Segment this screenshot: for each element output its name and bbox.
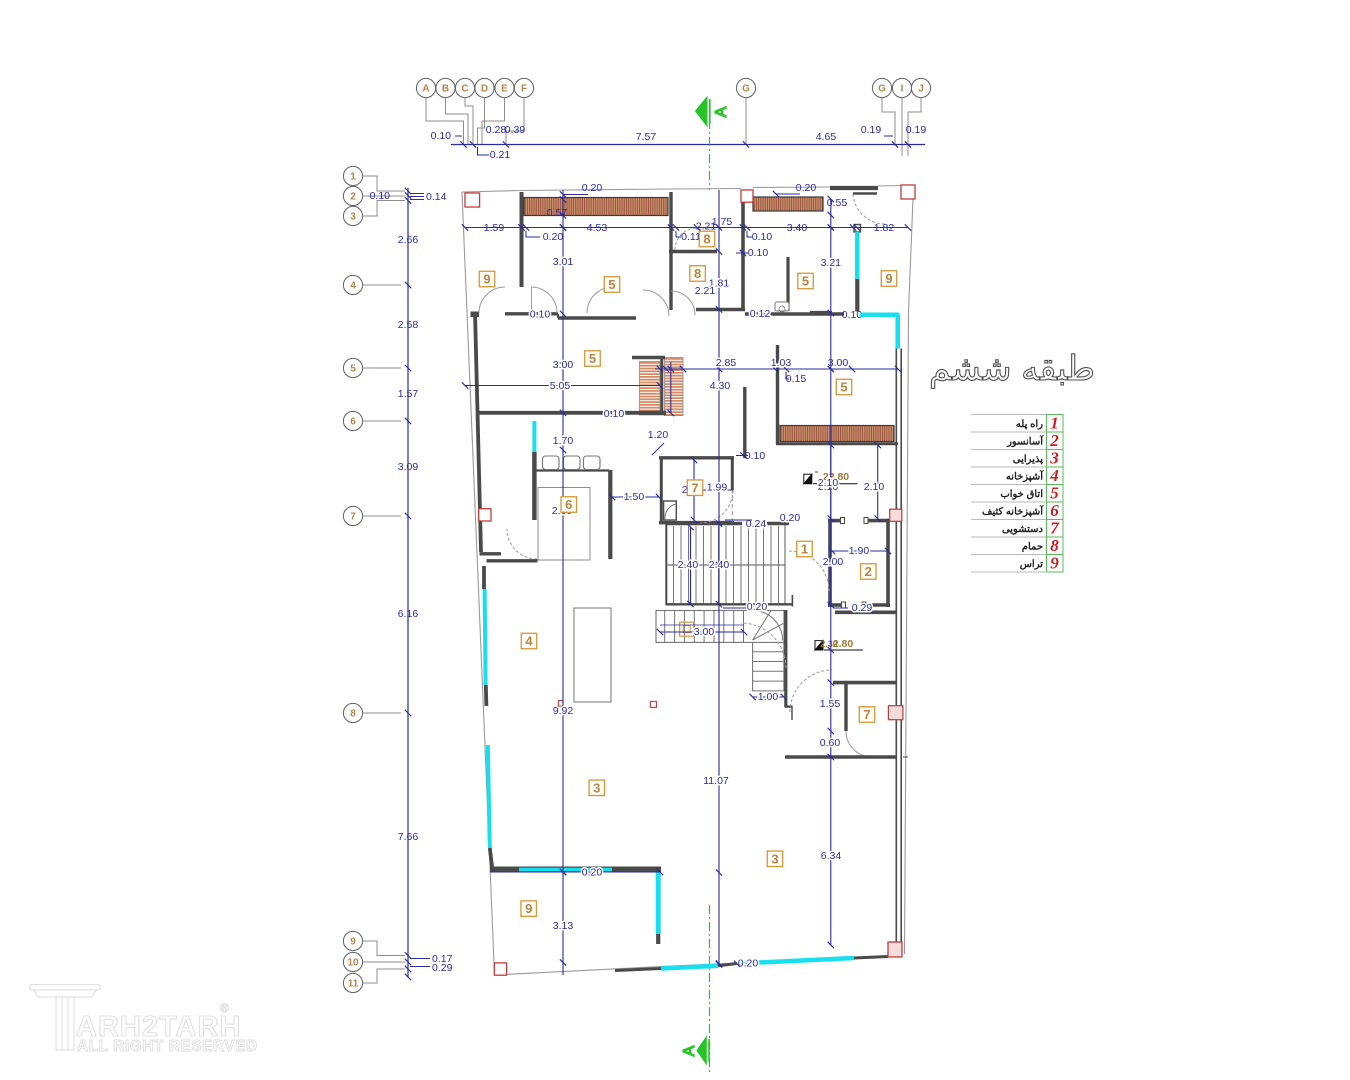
- svg-text:حمام: حمام: [1022, 542, 1043, 553]
- lobby door arc dashed lower: [790, 670, 832, 712]
- small red box near stair: [650, 701, 656, 707]
- grid bubble 2: [343, 186, 362, 205]
- mid hatch bottom wall extension: [639, 411, 666, 416]
- room label 8 lower: [690, 266, 706, 282]
- svg-text:2.21: 2.21: [695, 285, 716, 297]
- svg-text:7: 7: [691, 480, 698, 495]
- svg-text:6: 6: [350, 417, 356, 428]
- svg-text:0.28: 0.28: [486, 124, 507, 136]
- kitchen counter cabinet outline: [538, 488, 590, 561]
- grid bubble 1: [343, 166, 362, 185]
- dim 5.05 line: [465, 385, 660, 387]
- terrace 9 east window cyan: [656, 872, 661, 934]
- kitchen window cyan: [532, 421, 536, 452]
- svg-text:6: 6: [1050, 501, 1059, 520]
- svg-text:ALL RIGHT RESERVED: ALL RIGHT RESERVED: [77, 1038, 258, 1055]
- svg-text:D: D: [481, 84, 488, 95]
- svg-text:0.11: 0.11: [681, 231, 701, 243]
- svg-text:4: 4: [525, 634, 533, 649]
- svg-text:A: A: [713, 106, 730, 117]
- svg-text:7.57: 7.57: [636, 131, 657, 143]
- svg-text:0.29: 0.29: [432, 962, 453, 974]
- terrace 9 north wall: [490, 867, 661, 873]
- room label 6 kitchen: [561, 497, 577, 513]
- top-left corner red square: [465, 193, 480, 207]
- grid bubble 10: [343, 952, 362, 971]
- storage north wall: [835, 610, 896, 614]
- kitchen east wall: [608, 470, 612, 559]
- room 5a south wall jog: [557, 314, 559, 318]
- terrace cyan window corner horizontal: [860, 312, 899, 317]
- svg-text:E: E: [501, 84, 508, 95]
- svg-text:3.21: 3.21: [821, 257, 842, 269]
- svg-text:7.66: 7.66: [398, 831, 419, 843]
- svg-text:2.10: 2.10: [818, 477, 839, 489]
- east wall outer line: [895, 349, 897, 955]
- svg-text:3.09: 3.09: [398, 461, 419, 473]
- svg-text:1.20: 1.20: [648, 429, 669, 441]
- svg-text:8: 8: [694, 266, 701, 281]
- orange box stair label: [680, 622, 694, 636]
- svg-text:A: A: [681, 1045, 698, 1056]
- room label 9 right terrace: [881, 271, 897, 287]
- elevator east wall: [886, 519, 890, 607]
- svg-text:8: 8: [703, 232, 710, 247]
- svg-text:8: 8: [350, 709, 356, 720]
- svg-text:6: 6: [565, 497, 572, 512]
- left dimension line: [407, 188, 409, 977]
- legend row 9: [971, 554, 1047, 556]
- room 5b north wall segment: [558, 316, 636, 319]
- section marker bottom triangle: [697, 1037, 706, 1064]
- wall left of top balcony: [520, 192, 524, 287]
- stair treads upper flights: [674, 526, 779, 604]
- stairwell south edge: [666, 603, 793, 605]
- top-right corner red square: [901, 185, 915, 199]
- lobby door arc dashed upper: [789, 551, 829, 591]
- pink column right of elevator north: [890, 509, 902, 521]
- grid bubble J: [911, 78, 930, 97]
- svg-text:0.29: 0.29: [852, 602, 873, 614]
- room label 9 upper-left terrace: [479, 271, 495, 287]
- dim 1.90 elevator: [832, 550, 888, 552]
- svg-text:0.60: 0.60: [820, 737, 841, 749]
- wall right of top balcony / room 8 west wall: [669, 192, 672, 310]
- room 7b north wall: [833, 681, 896, 685]
- grid bubble D: [475, 78, 494, 97]
- svg-text:5: 5: [608, 277, 615, 292]
- grid bubble G: [736, 78, 755, 97]
- legend table: [971, 414, 1063, 573]
- kitchen door arc dashed: [507, 529, 537, 559]
- bedroom5/wc divider wall: [786, 257, 789, 311]
- bubble leaders G I J right: [882, 98, 895, 144]
- terrace cyan window corner vertical: [895, 315, 900, 349]
- svg-text:1.90: 1.90: [849, 545, 870, 557]
- top-right door leaf: [853, 192, 877, 195]
- kitchen stove burners: [543, 456, 560, 470]
- dim 1.00 winder: [753, 696, 784, 698]
- top-right window cyan: [855, 232, 860, 279]
- bottom-left corner red square: [494, 963, 506, 975]
- svg-text:راه پله: راه پله: [1016, 419, 1043, 430]
- room 7a shower corner: [664, 501, 677, 520]
- svg-text:دستشویی: دستشویی: [1002, 524, 1044, 535]
- svg-text:4: 4: [350, 281, 356, 292]
- svg-text:4: 4: [1049, 466, 1059, 485]
- legend row 1: [971, 414, 1047, 416]
- room 5a south wall segment: [505, 312, 558, 315]
- bottom window cyan right: [737, 958, 854, 964]
- svg-text:0.20: 0.20: [738, 958, 759, 970]
- dim 2.10 room 7a: [693, 460, 695, 520]
- svg-text:1.70: 1.70: [553, 435, 574, 447]
- grid bubble 9 left: [343, 931, 362, 950]
- svg-text:5: 5: [589, 351, 596, 366]
- dim 1.99 room 7a: [694, 489, 733, 491]
- room label 3 living east: [767, 851, 783, 867]
- svg-text:1.99: 1.99: [707, 482, 728, 494]
- svg-text:4.65: 4.65: [816, 131, 837, 143]
- level marker upper 22.80: [804, 474, 812, 483]
- grid G wall top-middle: [741, 190, 745, 311]
- west window cyan lower: [488, 745, 490, 848]
- svg-text:C: C: [461, 84, 468, 95]
- room label 5 upper right bedroom: [798, 273, 814, 289]
- grid bubble C: [455, 78, 474, 97]
- legend row 3: [971, 449, 1047, 451]
- left bubble leaders: [363, 176, 405, 191]
- room label 5 east bedroom: [836, 379, 852, 395]
- stairwell east edge: [784, 525, 786, 605]
- top balcony hatch: [524, 198, 668, 216]
- svg-text:0.10: 0.10: [752, 231, 773, 243]
- watermark tarh2tarh logo: [30, 985, 100, 1051]
- svg-text:5: 5: [1050, 484, 1059, 503]
- svg-text:0.10: 0.10: [604, 408, 625, 420]
- svg-text:اتاق خواب: اتاق خواب: [1000, 489, 1043, 500]
- legend row 8: [971, 536, 1047, 538]
- svg-text:3.40: 3.40: [787, 222, 808, 234]
- svg-text:3.00: 3.00: [553, 359, 574, 371]
- room 7b west wall: [844, 683, 847, 731]
- svg-text:1: 1: [1050, 414, 1059, 433]
- svg-text:1.57: 1.57: [398, 388, 419, 400]
- terrace 9 east wall cap: [656, 934, 660, 944]
- grid bubble 3: [343, 206, 362, 225]
- door arcs rooms 9/5a: [479, 287, 505, 313]
- elevator south wall: [828, 603, 842, 607]
- svg-text:1.75: 1.75: [712, 216, 733, 228]
- room label 8 upper: [699, 231, 715, 247]
- svg-text:11: 11: [348, 979, 359, 990]
- svg-text:I: I: [901, 84, 904, 95]
- wc room south wall: [745, 312, 844, 316]
- room label 2 elevator: [861, 564, 877, 580]
- svg-text:J: J: [918, 84, 924, 95]
- room label 4 kitchen room: [521, 633, 537, 649]
- room 5a south wall west block: [471, 312, 480, 318]
- room 8 door arc: [675, 228, 697, 250]
- svg-text:2.85: 2.85: [716, 357, 737, 369]
- svg-text:0.19: 0.19: [906, 124, 927, 136]
- svg-text:4.30: 4.30: [710, 380, 731, 392]
- svg-text:9: 9: [350, 937, 356, 948]
- room label 3 living: [589, 780, 605, 796]
- stairwell north wall: [666, 522, 743, 525]
- svg-text:0.14: 0.14: [426, 191, 447, 203]
- svg-text:0.10: 0.10: [748, 247, 769, 259]
- grid bubble A: [416, 78, 435, 97]
- svg-text:4.53: 4.53: [587, 222, 608, 234]
- legend row 4: [971, 466, 1047, 468]
- svg-text:طبقه ششم: طبقه ششم: [929, 350, 1095, 389]
- grid bubble 8: [343, 703, 362, 722]
- room label 9 bottom terrace: [521, 901, 537, 917]
- terrace 9 south wall piece: [810, 311, 832, 315]
- top-right thick wall: [830, 186, 878, 190]
- svg-text:0.20: 0.20: [747, 601, 768, 613]
- legend row 5: [971, 484, 1047, 486]
- svg-text:3: 3: [593, 780, 600, 795]
- svg-text:آسانسور: آسانسور: [1006, 435, 1044, 448]
- svg-text:0.39: 0.39: [505, 124, 526, 136]
- room 7a south wall: [659, 521, 734, 525]
- svg-text:3.01: 3.01: [553, 256, 574, 268]
- svg-text:0.21: 0.21: [490, 149, 511, 161]
- svg-text:2.40: 2.40: [678, 559, 699, 571]
- legend row 6: [971, 501, 1047, 503]
- svg-text:9: 9: [1050, 554, 1059, 573]
- svg-text:2: 2: [1049, 431, 1059, 450]
- stair winder fan: [753, 611, 784, 640]
- grid bubble 7: [343, 506, 362, 525]
- door arcs room 5a east doors: [587, 287, 613, 313]
- svg-text:6.34: 6.34: [821, 850, 842, 862]
- room 7a west wall: [660, 457, 663, 523]
- svg-text:0.20: 0.20: [796, 182, 817, 194]
- property boundary bottom edge: [495, 957, 891, 976]
- svg-text:1.03: 1.03: [771, 357, 792, 369]
- svg-text:8: 8: [1050, 536, 1059, 555]
- east wall inner line: [900, 349, 902, 955]
- stair lower flight treads: [665, 611, 744, 642]
- grid bubble B: [436, 78, 455, 97]
- dim 1.20 vertical: [670, 362, 672, 413]
- hall west wall lower piece: [487, 559, 538, 562]
- bottom wall dark pieces: [615, 969, 661, 971]
- mid hatch left strip: [640, 362, 661, 413]
- svg-text:0.20: 0.20: [582, 867, 603, 879]
- east vertical dim line x=877.7: [877, 445, 879, 520]
- svg-text:2: 2: [350, 192, 356, 203]
- svg-text:10: 10: [347, 958, 359, 969]
- svg-text:1: 1: [801, 542, 808, 557]
- room 7b south wall: [785, 755, 896, 759]
- dim line y=227 horizontal: [465, 227, 908, 229]
- property boundary right edge: [905, 199, 914, 954]
- svg-text:9: 9: [483, 272, 490, 287]
- west wall joint piece: [484, 685, 488, 706]
- svg-text:5.05: 5.05: [550, 380, 571, 392]
- east balcony hatch H3: [780, 426, 894, 442]
- elevator west wall: [828, 519, 832, 607]
- bottom window cyan left: [661, 966, 718, 969]
- stair east wall: [784, 610, 787, 707]
- room label 5 upper bedroom: [604, 277, 620, 293]
- west wall corner to terrace: [490, 848, 493, 869]
- svg-text:5: 5: [802, 274, 809, 289]
- svg-text:2: 2: [865, 564, 872, 579]
- pink column room 7b: [888, 706, 903, 720]
- dim 0.20 terrace: [490, 871, 660, 873]
- svg-text:9: 9: [525, 901, 532, 916]
- legend row 2: [971, 431, 1047, 433]
- svg-text:G: G: [742, 84, 750, 95]
- bottom-right corner red square: [888, 942, 902, 957]
- dim 1.50 hall: [612, 496, 659, 498]
- legend row 7: [971, 519, 1047, 521]
- top-right balcony hatch: [753, 197, 823, 211]
- room 7a north wall: [659, 456, 734, 459]
- svg-text:آشپزخانه کثیف: آشپزخانه کثیف: [982, 505, 1044, 518]
- svg-text:7: 7: [863, 707, 870, 722]
- svg-text:1.82: 1.82: [874, 222, 895, 234]
- top-middle red square at grid G: [741, 190, 753, 202]
- svg-text:0.12: 0.12: [750, 308, 771, 320]
- svg-text:پذیرایی: پذیرایی: [1013, 454, 1043, 465]
- svg-text:2.40: 2.40: [709, 559, 730, 571]
- stair lower vertical flight: [753, 642, 784, 691]
- shaft wall: [743, 387, 746, 458]
- room 7a east wall: [731, 457, 734, 490]
- kitchen counter top edge: [536, 469, 609, 471]
- svg-text:2.10: 2.10: [864, 481, 885, 493]
- svg-text:3: 3: [350, 212, 356, 223]
- top dimension line: [451, 144, 925, 146]
- svg-text:®: ®: [220, 1001, 229, 1015]
- east balcony south wall: [776, 442, 898, 445]
- grid bubble E: [495, 78, 514, 97]
- svg-text:1.55: 1.55: [820, 698, 841, 710]
- small red box 2: [558, 701, 563, 707]
- grid bubble I: [892, 78, 911, 97]
- room 4 island table: [574, 608, 611, 702]
- top-right window cap: [854, 225, 861, 233]
- svg-text:0.19: 0.19: [861, 124, 882, 136]
- svg-text:1.50: 1.50: [624, 491, 645, 503]
- stair lower flight outline: [656, 611, 784, 643]
- east vertical dim line x=830.8: [830, 200, 832, 945]
- svg-text:0.20: 0.20: [543, 231, 564, 243]
- wall below top-right window: [855, 279, 859, 312]
- room label 7 bath upper: [687, 480, 703, 496]
- svg-text:2.66: 2.66: [398, 234, 419, 246]
- svg-text:3.13: 3.13: [553, 920, 574, 932]
- terrace 9 north window cyan: [519, 868, 612, 872]
- svg-text:3: 3: [771, 851, 778, 866]
- west wall bedroom 5b: [475, 312, 481, 552]
- svg-text:1: 1: [350, 172, 356, 183]
- svg-text:9.92: 9.92: [553, 705, 574, 717]
- elevator north wall: [828, 519, 841, 523]
- red box on west boundary: [479, 509, 491, 521]
- dim 2.40 stairs: [690, 527, 692, 604]
- kitchen west wall: [532, 452, 537, 520]
- section line A-A bottom: [709, 905, 711, 1072]
- svg-text:1.00: 1.00: [758, 691, 779, 703]
- svg-text:G: G: [878, 84, 886, 95]
- svg-text:6.16: 6.16: [398, 608, 419, 620]
- bubble leader lines A-F: [426, 98, 464, 144]
- dim 3.00 lower stair: [660, 631, 744, 633]
- hall west wall upper piece: [480, 552, 502, 555]
- room label 1 stair hall: [797, 541, 813, 557]
- grid bubble G right: [872, 78, 891, 97]
- mid hatch right strip: [665, 358, 684, 416]
- svg-text:11.07: 11.07: [703, 775, 729, 787]
- svg-text:3: 3: [1049, 449, 1059, 468]
- room 8 south wall: [696, 308, 745, 312]
- grid bubble F: [514, 78, 533, 97]
- svg-text:0.10: 0.10: [530, 309, 551, 321]
- svg-text:9: 9: [885, 271, 892, 286]
- west window cyan upper: [482, 566, 486, 589]
- svg-text:3.00: 3.00: [694, 626, 715, 638]
- stair flight arrows: [690, 527, 692, 604]
- central vertical dim line x=719: [718, 190, 720, 966]
- grid bubble 4: [343, 275, 362, 294]
- east bedroom 5 west wall: [776, 345, 779, 444]
- stairwell west wall: [665, 524, 667, 605]
- grid bubble 5: [343, 358, 362, 377]
- room 5b south wall: [479, 411, 639, 415]
- svg-text:0.20: 0.20: [780, 512, 801, 524]
- svg-text:B: B: [442, 84, 449, 95]
- level marker lower 2.80: [815, 641, 823, 650]
- stair mid landing line: [666, 564, 785, 566]
- svg-text:1.59: 1.59: [484, 222, 505, 234]
- section marker top triangle: [696, 97, 708, 126]
- mid hatch divider wall: [660, 359, 663, 414]
- svg-text:آشپزخانه: آشپزخانه: [1006, 470, 1044, 483]
- stair east wall foot: [785, 705, 793, 707]
- toilet fixture: [775, 302, 789, 311]
- svg-text:2.00: 2.00: [823, 556, 844, 568]
- mid hatch top wall: [632, 356, 665, 360]
- stair wall to lobby: [791, 595, 793, 607]
- svg-text:7: 7: [350, 512, 356, 523]
- svg-text:5: 5: [350, 364, 356, 375]
- property boundary top edge: [462, 189, 741, 193]
- svg-text:0.10: 0.10: [431, 130, 452, 142]
- svg-text:تراس: تراس: [1020, 559, 1044, 570]
- dim line y=369 horizontal: [655, 368, 898, 370]
- grid bubble 6: [343, 411, 362, 430]
- svg-text:0.20: 0.20: [582, 182, 603, 194]
- room label 7 wc lower: [859, 707, 875, 723]
- grid bubble 11: [343, 973, 362, 992]
- room 7a door arc dashed: [700, 490, 733, 523]
- room 8 dividing wall horizontal: [669, 250, 717, 253]
- svg-text:A: A: [422, 84, 429, 95]
- svg-text:5: 5: [840, 380, 847, 395]
- room 7b door arc: [846, 731, 872, 757]
- dim 2.10 elevator approach: [830, 445, 832, 518]
- svg-text:F: F: [521, 84, 527, 95]
- top-right door arc: [853, 194, 885, 224]
- vertical dim line x=563 (3.01 3.00 ...): [562, 190, 564, 975]
